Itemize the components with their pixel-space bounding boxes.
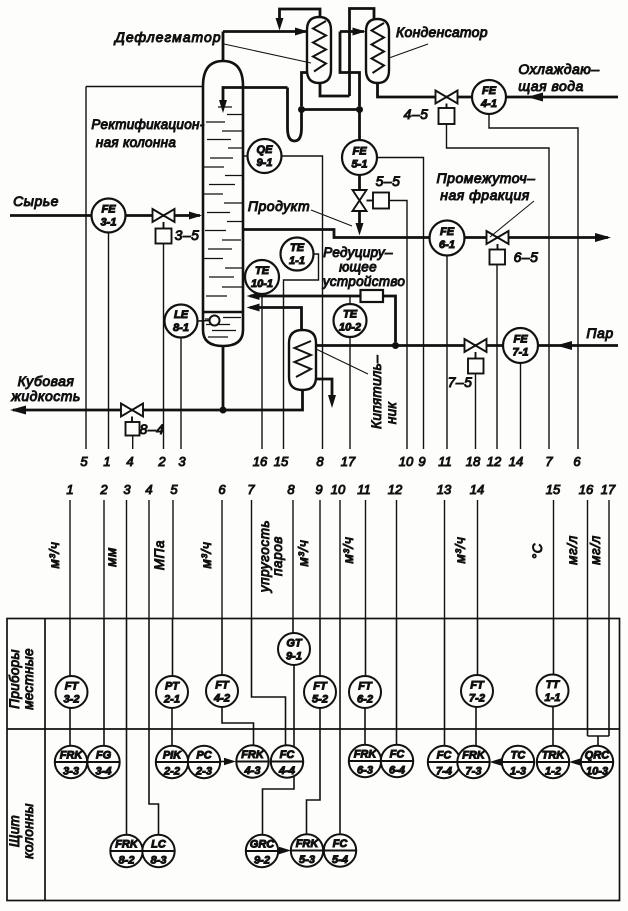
- svg-text:FE: FE: [482, 85, 497, 97]
- signal line 2: [103, 500, 105, 619]
- signal wire from 4-5 square to line 7: [447, 124, 550, 449]
- svg-text:8-3: 8-3: [151, 855, 167, 867]
- arrow GRC 9-2 to FRK 5-3: [278, 850, 284, 852]
- svg-text:4: 4: [126, 454, 133, 469]
- svg-text:6-3: 6-3: [357, 765, 373, 777]
- svg-text:17: 17: [601, 482, 616, 497]
- svg-text:ник: ник: [384, 402, 399, 425]
- wire: feed line: [10, 214, 200, 217]
- wire line14 to FT 7-2 and FRK 7-3: [476, 619, 478, 747]
- svg-text:4: 4: [145, 482, 152, 497]
- svg-text:Сырье: Сырье: [13, 193, 59, 209]
- svg-text:Конденсатор: Конденсатор: [396, 24, 488, 40]
- wire: column bottoms downcomer: [222, 346, 225, 410]
- signal line 11: [365, 500, 367, 619]
- svg-text:1: 1: [103, 454, 110, 469]
- svg-text:1-2: 1-2: [545, 766, 561, 778]
- svg-text:10: 10: [399, 454, 414, 469]
- signal line 5: [172, 500, 174, 619]
- actuator square 3-5: [156, 222, 172, 244]
- signal line 8: [292, 500, 294, 619]
- svg-text:9-2: 9-2: [254, 855, 270, 867]
- instrument QRC 10-3: [581, 746, 613, 778]
- svg-text:2: 2: [99, 482, 108, 497]
- instrument FE 4-1: [472, 80, 506, 114]
- wire: product offtake from column: [243, 230, 608, 238]
- condenser coil: [372, 23, 385, 73]
- svg-text:14: 14: [470, 482, 484, 497]
- wire: vapour pipe into condenser: [340, 32, 364, 107]
- arrow feed into column: [189, 212, 202, 220]
- wire: condensate header: [302, 108, 360, 111]
- svg-text:14: 14: [509, 454, 523, 469]
- signal wire from 7-5 square to line 18: [475, 374, 477, 450]
- svg-text:17: 17: [341, 454, 356, 469]
- actuator square 7-5: [468, 352, 484, 374]
- wire line7 to FC 4-4: [252, 619, 286, 746]
- svg-text:7-1: 7-1: [513, 347, 529, 359]
- svg-text:3–5: 3–5: [175, 227, 200, 243]
- svg-text:3: 3: [178, 454, 186, 469]
- wire: steam line: [316, 344, 618, 347]
- instrument GRC 9-2: [246, 835, 278, 867]
- svg-text:12: 12: [487, 454, 502, 469]
- wire: bottoms line to reboiler: [13, 390, 303, 410]
- svg-text:ющее: ющее: [339, 260, 377, 275]
- svg-text:7–5: 7–5: [448, 374, 473, 390]
- wire: reboiler vapour return to column: [250, 308, 302, 331]
- svg-text:2-2: 2-2: [163, 766, 180, 778]
- svg-text:GT: GT: [286, 638, 303, 650]
- wire: condenser top loop: [350, 9, 375, 97]
- svg-text:LC: LC: [151, 839, 167, 851]
- column trays (dashes): [204, 107, 242, 296]
- svg-text:FC: FC: [280, 749, 296, 761]
- signal line 10: [339, 500, 341, 619]
- svg-text:FC: FC: [437, 750, 453, 762]
- svg-text:1: 1: [66, 482, 73, 497]
- instrument QE 9-1: [244, 155, 248, 157]
- wire: cooling water line: [378, 83, 619, 97]
- wire line15 to TT 1-1 and TRK 1-2: [552, 619, 555, 747]
- svg-text:FT: FT: [358, 681, 373, 693]
- svg-text:18: 18: [466, 454, 481, 469]
- svg-text:7: 7: [545, 454, 553, 469]
- signal wire from 3-5 square to line 2: [163, 244, 165, 450]
- wire: product drop into fraction line: [358, 211, 361, 228]
- signal wire from FE 7-1 to line 14: [520, 363, 522, 449]
- svg-text:жидкость: жидкость: [10, 388, 81, 404]
- wire line8 to GT 9-1: [292, 619, 294, 634]
- dephlegmator vessel: [307, 17, 331, 83]
- svg-text:1-1: 1-1: [545, 692, 561, 704]
- svg-text:9-1: 9-1: [257, 157, 273, 169]
- svg-text:FE: FE: [513, 334, 528, 346]
- instrument FRK 5-3: [291, 834, 323, 866]
- instrument FT 6-2: [349, 676, 381, 708]
- node: junction condensate right: [356, 106, 363, 113]
- instrument TC 1-3: [502, 746, 534, 778]
- svg-text:5-4: 5-4: [332, 854, 348, 866]
- signal line 1: [69, 500, 71, 619]
- svg-text:4-1: 4-1: [480, 98, 497, 110]
- svg-text:5–5: 5–5: [376, 173, 401, 189]
- signal line 7: [251, 500, 253, 619]
- svg-text:м³/ч: м³/ч: [47, 542, 62, 569]
- arrow on steam line: [556, 341, 572, 350]
- arrow bottoms product out: [10, 406, 26, 415]
- svg-text:FRK: FRK: [354, 749, 378, 761]
- signal wire from LE 8-1 to line 3: [180, 338, 182, 450]
- wire: column vapour riser to condensers: [223, 32, 307, 62]
- svg-text:Охлаждаю–: Охлаждаю–: [518, 61, 599, 77]
- wire line10 to FC 5-4: [339, 619, 341, 835]
- svg-text:Кубовая: Кубовая: [18, 373, 75, 389]
- signal line 9: [319, 500, 321, 619]
- svg-text:5: 5: [80, 454, 88, 469]
- wire: reboiler outlet with down arrow: [316, 379, 332, 400]
- wire: frame line from node 5 to column top: [86, 87, 203, 450]
- instrument FC 5-4: [324, 834, 356, 866]
- instrument GT 9-1: [278, 633, 310, 665]
- svg-text:TE: TE: [343, 309, 358, 321]
- wire line9 to FT 5-2: [319, 619, 321, 677]
- signal wire from TE 10-1 to line 16: [261, 294, 263, 449]
- svg-text:FG: FG: [96, 750, 112, 762]
- wire FT 5-2 to FRK 5-3: [307, 708, 321, 835]
- arrow reduced product into column: [247, 292, 260, 300]
- valve 4-5: [436, 91, 458, 104]
- svg-text:ная колонна: ная колонна: [96, 135, 176, 150]
- svg-text:5-2: 5-2: [312, 694, 328, 706]
- signal wire from 5-5 square to line 10: [389, 201, 407, 450]
- instrument FRK 8-2: [110, 835, 142, 867]
- svg-text:8: 8: [316, 454, 324, 469]
- svg-text:10-1: 10-1: [251, 278, 273, 290]
- reflux arrow inside column: [219, 100, 227, 113]
- svg-text:2-3: 2-3: [195, 766, 212, 778]
- sight glass nozzle on column: [210, 316, 220, 326]
- svg-text:TT: TT: [546, 679, 561, 691]
- signal wire from TE 10-2 to line 17: [349, 337, 351, 449]
- svg-text:FC: FC: [333, 838, 349, 850]
- svg-text:7: 7: [247, 482, 255, 497]
- svg-text:11: 11: [438, 454, 452, 469]
- svg-text:4-4: 4-4: [278, 765, 295, 777]
- table header column separator: [44, 619, 46, 901]
- svg-text:паров: паров: [270, 536, 285, 576]
- svg-text:3-4: 3-4: [96, 766, 112, 778]
- svg-text:16: 16: [253, 454, 268, 469]
- svg-text:QRC: QRC: [585, 750, 611, 762]
- svg-text:Редуциру–: Редуциру–: [323, 245, 393, 260]
- signal line 15: [553, 500, 555, 619]
- arrow end of intermediate fraction line: [595, 233, 611, 242]
- svg-text:6–5: 6–5: [514, 249, 539, 265]
- instrument TRK 1-2: [537, 746, 569, 778]
- wire: dephlegmator side outlet to condensate header: [302, 73, 309, 107]
- svg-text:TE: TE: [255, 265, 270, 277]
- instrument PIK 2-2: [156, 746, 188, 778]
- svg-text:FT: FT: [470, 680, 485, 692]
- wire: product riser from header: [358, 110, 361, 191]
- instrument FC 4-4: [271, 745, 303, 777]
- instrument TT 1-1: [537, 675, 569, 707]
- svg-text:15: 15: [546, 482, 561, 497]
- svg-text:8-1: 8-1: [173, 322, 189, 334]
- condenser vessel: [366, 19, 389, 83]
- middle band numbers 1-17: [66, 482, 616, 497]
- arrow on cooling water line: [527, 93, 543, 102]
- signal wire from QE 9-1 to line 8: [282, 156, 323, 449]
- arrow QRC 10-3 to TRK 1-2: [575, 761, 581, 763]
- wire line5 to PT 2-1 and PIK 2-2: [171, 619, 174, 747]
- signal stub from 8-4 square to line 4: [132, 436, 134, 450]
- arrow vapour return into column: [247, 304, 260, 312]
- signal line 13: [444, 500, 446, 619]
- svg-text:8: 8: [287, 482, 295, 497]
- svg-text:устройство: устройство: [322, 274, 406, 289]
- actuator square 6-5: [490, 244, 506, 265]
- svg-text:10-2: 10-2: [339, 322, 361, 334]
- arrow product joins line: [356, 223, 364, 236]
- svg-text:FE: FE: [440, 226, 455, 238]
- table row separator: [7, 728, 620, 730]
- svg-text:FE: FE: [101, 204, 116, 216]
- instrument FT 4-2: [206, 675, 238, 707]
- column liquid hatching: [205, 318, 241, 338]
- svg-text:мм: мм: [104, 547, 119, 567]
- node: junction bottoms line: [220, 407, 227, 414]
- dephlegmator coil: [313, 21, 326, 72]
- wire line2 to FG 3-4: [103, 619, 105, 747]
- signal line 14: [477, 500, 479, 619]
- signal line 4: [148, 500, 150, 619]
- svg-text:МПа: МПа: [152, 540, 167, 570]
- instrument LC 8-3: [142, 835, 174, 867]
- svg-text:FRK: FRK: [241, 749, 265, 761]
- reboiler vessel: [289, 330, 316, 390]
- svg-text:13: 13: [437, 482, 452, 497]
- svg-text:6-1: 6-1: [439, 239, 455, 251]
- instrument FT 3-2: [56, 676, 88, 708]
- svg-text:1-1: 1-1: [289, 255, 305, 267]
- svg-text:11: 11: [357, 482, 371, 497]
- instrument PT 2-1: [156, 676, 188, 708]
- svg-text:Продукт: Продукт: [248, 198, 310, 214]
- svg-text:FRK: FRK: [462, 750, 486, 762]
- signal line 6: [221, 500, 223, 619]
- signal wire from FE 3-1 to line 1: [108, 233, 110, 450]
- instrument FC 7-4: [428, 746, 460, 778]
- signal wire from FE 4-1 to line 6: [489, 114, 578, 449]
- node: junction on steam line: [392, 342, 399, 349]
- wire line1 to FT 3-2 and FRK 3-3: [69, 619, 71, 747]
- svg-text:5-1: 5-1: [352, 159, 368, 171]
- svg-text:2: 2: [157, 454, 166, 469]
- signal wire from FE 5-1 to line 9: [377, 158, 424, 450]
- svg-text:1-3: 1-3: [510, 766, 526, 778]
- instrument FC 6-4: [381, 745, 413, 777]
- actuator square 5-5: [367, 193, 390, 209]
- svg-text:4–5: 4–5: [404, 106, 429, 122]
- svg-text:12: 12: [388, 482, 403, 497]
- column bottom liquid level: [204, 311, 242, 314]
- svg-text:TRK: TRK: [542, 750, 566, 762]
- svg-text:7-4: 7-4: [436, 766, 452, 778]
- wire: reduced product line into column: [250, 296, 396, 342]
- valve 7-5: [465, 339, 487, 352]
- svg-text:10: 10: [331, 482, 346, 497]
- svg-text:PIK: PIK: [163, 750, 182, 762]
- svg-text:Ректификацион-: Ректификацион-: [91, 117, 204, 132]
- svg-text:TE: TE: [290, 242, 305, 254]
- valve 3-5: [153, 209, 175, 222]
- svg-text:Промежуточ–: Промежуточ–: [437, 170, 536, 186]
- table frame: [7, 619, 620, 901]
- svg-text:15: 15: [274, 454, 289, 469]
- actuator square 8-4: [126, 417, 140, 436]
- svg-text:мг/л: мг/л: [588, 535, 603, 565]
- svg-text:м³/ч: м³/ч: [199, 542, 214, 569]
- instrument FE 7-1: [503, 328, 538, 363]
- valve 6-5: [487, 231, 509, 244]
- svg-text:9-1: 9-1: [286, 651, 302, 663]
- svg-text:FRK: FRK: [60, 750, 84, 762]
- svg-text:FT: FT: [65, 681, 80, 693]
- signal wire from FE 6-1 to line 11: [446, 256, 448, 450]
- valve 5-5 (vertical): [353, 190, 367, 211]
- rectification column shell: [203, 61, 243, 346]
- svg-text:TC: TC: [511, 750, 527, 762]
- svg-text:3-1: 3-1: [101, 217, 117, 229]
- instrument FE 5-1: [342, 140, 377, 175]
- svg-text:Дефлегматор: Дефлегматор: [113, 29, 221, 45]
- svg-text:6-2: 6-2: [357, 694, 373, 706]
- svg-text:9: 9: [315, 482, 322, 497]
- svg-text:ная фракция: ная фракция: [440, 187, 530, 203]
- instrument PC 2-3: [188, 746, 220, 778]
- svg-text:колонны: колонны: [21, 803, 36, 859]
- svg-text:10-3: 10-3: [586, 766, 608, 778]
- svg-text:4-3: 4-3: [244, 765, 261, 777]
- svg-text:щая вода: щая вода: [518, 78, 584, 94]
- wire line13 to FC 7-4: [444, 619, 446, 747]
- arrow TC 1-3 to FRK 7-3: [496, 761, 502, 763]
- svg-text:PT: PT: [165, 681, 180, 693]
- valve 8-4: [121, 404, 143, 417]
- svg-text:FE: FE: [352, 146, 367, 158]
- top band tick numbers: [80, 454, 581, 469]
- arrow into condenser: [353, 28, 366, 36]
- svg-text:3-2: 3-2: [64, 694, 80, 706]
- wire: U-seal to column reflux: [223, 88, 302, 142]
- svg-text:3-3: 3-3: [63, 766, 79, 778]
- actuator square 4-5: [439, 104, 455, 125]
- instrument FE 3-1: [92, 199, 126, 233]
- wire GT 9-1 to GRC 9-2: [263, 665, 295, 835]
- wire line6 to FT 4-2: [221, 619, 223, 676]
- wire line3 to FRK 8-2: [126, 619, 128, 836]
- svg-text:м³/ч: м³/ч: [296, 540, 311, 567]
- svg-text:мг/л: мг/л: [565, 535, 580, 565]
- svg-text:PC: PC: [196, 750, 212, 762]
- instrument FRK 4-3: [236, 745, 268, 777]
- svg-text:6: 6: [218, 482, 226, 497]
- svg-text:4-2: 4-2: [213, 693, 230, 705]
- svg-text:8–4: 8–4: [140, 421, 165, 437]
- wire FT 4-2 to FRK 4-3: [222, 707, 254, 746]
- signal line 17: [608, 500, 610, 619]
- node: junction condensate left: [298, 106, 305, 113]
- instrument FT 7-2: [461, 675, 493, 707]
- signal line 12: [396, 500, 398, 619]
- signal line 16: [587, 500, 589, 619]
- instrument LE 8-1: [198, 320, 210, 323]
- signal wire from TE 1-1 to line 15: [284, 254, 319, 449]
- signal line 3: [126, 500, 128, 619]
- svg-text:LE: LE: [174, 309, 189, 321]
- instrument FRK 3-3: [55, 746, 87, 778]
- instrument FE 6-1: [430, 221, 465, 256]
- wire: dephlegmator top loop with down arrow: [280, 9, 321, 23]
- svg-text:Приборы: Приборы: [7, 649, 22, 708]
- wire line12 to FC 6-4: [396, 619, 398, 746]
- instrument FRK 6-3: [349, 745, 381, 777]
- svg-text:FT: FT: [313, 681, 328, 693]
- svg-text:м³/ч: м³/ч: [341, 537, 356, 564]
- svg-text:QE: QE: [257, 144, 274, 156]
- svg-text:7-3: 7-3: [466, 766, 482, 778]
- arrow into dephlegmator: [295, 28, 308, 36]
- svg-text:5-3: 5-3: [299, 854, 315, 866]
- svg-text:6: 6: [573, 454, 581, 469]
- svg-text:м³/ч: м³/ч: [453, 537, 468, 564]
- instrument FT 5-2: [304, 676, 336, 708]
- svg-text:3: 3: [123, 482, 131, 497]
- svg-text:16: 16: [579, 482, 594, 497]
- instrument TE 10-2: [349, 296, 351, 304]
- svg-text:Кипятиль–: Кипятиль–: [369, 355, 384, 429]
- reducing device orifice: [361, 290, 384, 302]
- svg-text:°С: °С: [530, 543, 545, 559]
- signal wire from 6-5 square to line 12: [496, 265, 498, 450]
- svg-text:8-2: 8-2: [119, 855, 135, 867]
- arrow PC 2-3 to FRK 4-3: [220, 761, 226, 763]
- svg-text:FC: FC: [390, 749, 406, 761]
- svg-text:Щит: Щит: [7, 815, 22, 847]
- instrument TE 1-1: [281, 238, 314, 271]
- reboiler coil: [295, 341, 312, 377]
- svg-text:6-4: 6-4: [389, 765, 405, 777]
- wire line11 to FT 6-2 and FRK 6-3: [364, 619, 367, 746]
- wire line4 to LC 8-3: [149, 619, 159, 836]
- instrument FRK 7-3: [457, 746, 489, 778]
- instrument FG 3-4: [87, 746, 119, 778]
- svg-text:2-1: 2-1: [163, 694, 180, 706]
- svg-text:GRC: GRC: [250, 839, 276, 851]
- svg-text:9: 9: [418, 454, 425, 469]
- svg-text:FRK: FRK: [296, 838, 320, 850]
- svg-text:FRK: FRK: [115, 839, 139, 851]
- wire: dephlegmator bottom to condenser loop: [320, 83, 350, 96]
- wire lines16+17 joined to QRC 10-3: [588, 619, 610, 747]
- svg-text:Пар: Пар: [586, 325, 613, 341]
- svg-text:7-2: 7-2: [469, 693, 485, 705]
- svg-text:местные: местные: [21, 648, 36, 710]
- instrument TE 10-1: [245, 260, 279, 294]
- svg-text:FT: FT: [215, 680, 230, 692]
